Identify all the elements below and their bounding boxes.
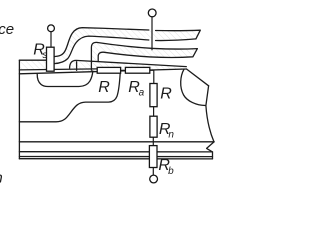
svg-text:s: s [42,50,47,61]
source terminal circle [48,25,55,32]
resistor Ra box [125,67,149,73]
drain terminal circle [150,175,158,183]
svg-text:b: b [168,166,174,177]
svg-text:R: R [160,85,172,102]
source metal bottom right segment [156,39,196,41]
svg-text:a: a [139,88,145,99]
outer p-body tub [19,73,120,122]
source terminal lead [50,32,52,48]
oxide band hatched fill [70,60,187,72]
source metal outer S edge and top [54,28,149,57]
gate plate hatched fill [91,42,197,70]
left edge of silicon block [18,60,20,159]
svg-text:n: n [168,130,174,141]
wire Ra to Rj [150,70,154,83]
right p-body arc [181,69,206,105]
gate plate outline [91,42,197,70]
resistor Rs box [47,47,55,71]
source metal top right segment [156,30,201,39]
svg-text:n: n [0,170,3,187]
inner p-body tub [37,71,93,87]
wire Rj to Rn [153,107,155,117]
resistor Rj box [150,84,157,107]
wire Rn to Rb [152,137,154,145]
epi/substrate junction line [19,141,214,143]
poly step edge [76,62,78,71]
resistor Rb box [149,146,157,168]
svg-text:R: R [98,79,110,96]
n+ line under source metal [19,69,97,70]
gate terminal circle [148,9,156,17]
gate terminal lead [151,17,153,50]
wire Rch to Ra [121,69,126,71]
wire Rb to drain terminal [152,168,154,176]
source metal strip hatched fill [54,28,200,64]
drain metal top line [19,156,212,158]
right face top edge [187,69,209,86]
resistor Rch box [97,67,120,73]
break zigzag [207,142,214,159]
right face side edge [206,86,214,142]
oxide band top line [70,60,187,68]
left metal top line [19,59,46,61]
resistor Rn box [150,116,157,137]
substrate bottom line [19,151,212,153]
svg-text:ce: ce [0,21,14,38]
silicon surface line [19,69,186,74]
drain metal bottom line [19,158,212,160]
left metal band hatched fill [19,60,46,70]
source metal inner S edge and bottom [54,36,149,64]
